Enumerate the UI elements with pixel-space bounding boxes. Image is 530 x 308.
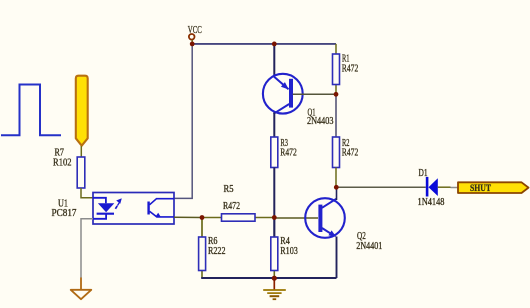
junction dot R5 right / rail [272, 215, 277, 220]
ground (left, signal ground) [71, 278, 92, 300]
wire opto emitter to junction [174, 216, 202, 218]
wire opto cathode to ground [81, 219, 93, 278]
ground (power ground, centre) [263, 278, 286, 299]
wire to SHUT flag [451, 187, 459, 189]
junction dot Q1 emitter node [272, 42, 277, 47]
wire R1 junction to R2 [335, 94, 337, 137]
svg-text:2N4403: 2N4403 [307, 116, 334, 127]
junction dot R2/Q2 collector/D1 [334, 185, 339, 190]
U1 phototransistor [147, 199, 174, 218]
junction dot VCC node [190, 42, 195, 47]
svg-text:R103: R103 [280, 246, 298, 257]
svg-text:R472: R472 [223, 201, 240, 212]
transistor Q2 (NPN 2N4401) [305, 198, 345, 238]
junction dot R1/R2/Q1 base [334, 92, 339, 97]
resistor R4 pins [273, 218, 275, 238]
resistor R7 body [77, 157, 85, 188]
wire bottom rail [201, 277, 336, 279]
svg-text:D1: D1 [419, 168, 428, 179]
svg-text:R472: R472 [280, 148, 297, 159]
diode D1 1N4148 [426, 177, 451, 197]
U1 photon arrows [115, 199, 120, 208]
probe (yellow test point) [76, 76, 88, 146]
wire R3 to R5 junction [273, 168, 275, 238]
wire Q2 emitter to bottom rail [336, 237, 338, 279]
svg-text:R102: R102 [53, 157, 72, 168]
wire Q2 collector [336, 187, 338, 200]
wire junction to Q2 base [274, 217, 318, 219]
wire top rail [192, 43, 336, 45]
pulse waveform input [1, 85, 61, 136]
resistor R5 body [222, 214, 256, 221]
resistor R1 pins [335, 44, 337, 54]
optocoupler U1 PC817 box [93, 193, 174, 225]
U1 LED [93, 198, 114, 219]
wire VCC down-rail to opto collector [174, 44, 192, 199]
svg-text:R472: R472 [342, 64, 359, 75]
wire Q1 collector to R3 [273, 113, 275, 138]
power port VCC [188, 25, 202, 44]
wire Q1 base [293, 93, 336, 95]
junction dot R5 left / R6 top [200, 215, 205, 220]
wire R7 to opto anode [81, 188, 93, 198]
svg-text:R5: R5 [224, 184, 234, 195]
wire probe to R7 [80, 146, 82, 157]
resistor R5 pins [202, 217, 222, 219]
net label flag SHUT [458, 182, 529, 193]
wire D1 net [336, 186, 426, 188]
resistor R4 body [271, 237, 278, 271]
transistor Q1 (PNP 2N4403) [263, 74, 303, 114]
svg-text:1N4148: 1N4148 [418, 197, 445, 208]
wire Q1 emitter [273, 44, 275, 75]
svg-text:R472: R472 [342, 148, 359, 159]
resistor R6 pins [201, 218, 203, 238]
resistor R3 body [271, 137, 278, 168]
svg-text:2N4401: 2N4401 [356, 241, 382, 252]
svg-text:PC817: PC817 [52, 208, 77, 219]
resistor R2 bottom pin [335, 168, 337, 188]
junction dot ground stem [272, 276, 277, 281]
svg-text:SHUT: SHUT [470, 183, 491, 193]
resistor R6 body [199, 237, 206, 271]
resistor R1 body [333, 54, 340, 85]
resistor R2 body [333, 137, 340, 168]
svg-text:R222: R222 [208, 246, 226, 257]
